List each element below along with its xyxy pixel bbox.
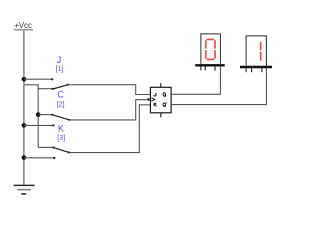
svg-text:J: J xyxy=(57,55,62,65)
U2 digit 0 xyxy=(206,39,215,59)
wire: switch K bottom throw stub xyxy=(24,157,56,159)
wire: jog rail to bus xyxy=(24,84,38,86)
U1 top pin xyxy=(160,83,162,87)
U3 digit 1 xyxy=(260,42,262,61)
svg-text:[1]: [1] xyxy=(56,66,64,73)
wire: Vcc rail vertical xyxy=(23,31,25,186)
U1 clock bubble xyxy=(147,98,150,101)
wire: switch K top throw stub xyxy=(38,146,55,148)
U1 pin label J xyxy=(154,93,156,96)
wire: C pole to U1 clock xyxy=(69,100,147,120)
U1 pin label K xyxy=(154,103,156,107)
U1 pin label Q' xyxy=(163,103,167,107)
junction node (bus to C top) xyxy=(36,112,41,117)
junction node (rail to J top) xyxy=(22,77,27,82)
svg-text:[2]: [2] xyxy=(57,101,65,108)
svg-text:[3]: [3] xyxy=(57,135,65,142)
wire: U1 Q' to display U3 xyxy=(171,68,266,105)
wire: K pole to U1 K input xyxy=(69,105,150,153)
U1 clock chevron xyxy=(151,98,154,101)
switch K blade xyxy=(54,148,70,154)
wire: switch J bottom throw stub xyxy=(38,88,53,90)
svg-text:K: K xyxy=(58,123,64,133)
wire: switch C top throw stub xyxy=(38,114,53,116)
wire: switch C bottom throw stub xyxy=(24,124,55,126)
display U3 body xyxy=(240,36,272,72)
svg-text:C: C xyxy=(57,90,64,100)
wire: U1 Q to display U2 xyxy=(171,66,220,94)
wire: rail to switch J top throw xyxy=(24,78,53,80)
junction node (rail to K bottom) xyxy=(22,155,27,160)
power +Vcc xyxy=(14,21,33,30)
ground xyxy=(14,185,35,194)
junction node (rail to C bottom) xyxy=(22,123,27,128)
switch C blade xyxy=(53,115,70,121)
flip-flop U1 box xyxy=(150,87,171,113)
display U2 body xyxy=(195,34,225,71)
U1 bottom pin xyxy=(160,113,162,118)
wire: bus vertical xyxy=(37,84,39,147)
U1 pin label Q xyxy=(163,93,166,97)
switch J blade xyxy=(53,84,69,89)
wire: J pole to U1 J input xyxy=(68,85,151,95)
svg-text:+Vcc: +Vcc xyxy=(14,21,32,30)
